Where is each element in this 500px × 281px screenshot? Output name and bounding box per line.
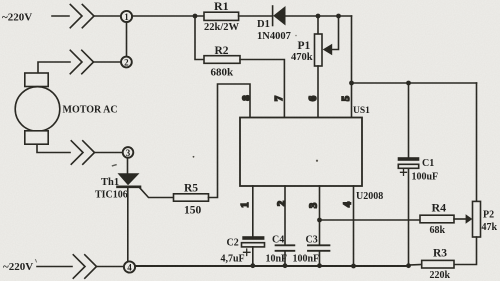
capacitor C2 4.7uF <box>221 236 265 264</box>
wire motor top lead <box>38 62 70 73</box>
wire D1 to corner <box>286 15 352 17</box>
junction dot C1 rail <box>406 81 411 86</box>
wire R4 to P2 wiper arrow <box>454 214 472 224</box>
wire R1 to D1 <box>239 15 273 17</box>
junction dot P1 top <box>316 14 321 19</box>
wire node1 to node2 <box>126 22 128 57</box>
diode D1 1N4007 <box>257 6 291 42</box>
connector chevrons row2 <box>70 50 93 73</box>
potentiometer P1 470k <box>291 16 339 66</box>
node 4 <box>124 261 135 272</box>
node 3 <box>123 147 134 158</box>
capacitor C1 100uF <box>398 157 438 182</box>
capacitor C3 100nF <box>293 235 330 265</box>
wire node3 to thyristor <box>127 158 129 174</box>
wire P1 to pin6 <box>317 66 319 118</box>
wire C1 to bottom rail <box>408 168 410 265</box>
wire chevron to node1 <box>94 15 121 17</box>
connector chevrons row4 <box>73 255 96 278</box>
label ~220V top <box>2 12 32 24</box>
junction dot C1 bottom <box>406 263 411 268</box>
connector chevrons row1 <box>70 5 94 28</box>
speck left of R5 <box>193 156 195 158</box>
junction dot wiper top <box>336 14 341 19</box>
wire chevron to node2 <box>94 61 122 63</box>
speck near node3 <box>113 165 117 166</box>
junction dot C3 <box>317 263 322 268</box>
junction dot C2 <box>250 263 255 268</box>
wire C3 to bottom rail <box>319 252 321 266</box>
wire pin4 to bottom rail <box>353 186 355 266</box>
wire R5 to pin8 <box>209 84 251 198</box>
junction dot node A <box>193 14 198 19</box>
wire chevron to node4 <box>97 266 125 268</box>
wire thyristor gate <box>140 188 174 198</box>
label ~220V bottom <box>3 261 33 273</box>
motor M1 MOTOR AC <box>15 73 117 144</box>
resistor R3 220k <box>409 248 455 281</box>
speck inside IC <box>316 160 318 162</box>
potentiometer P2 47k <box>454 83 498 265</box>
wire top-left feed <box>52 15 69 17</box>
speck above P1 label <box>295 35 297 37</box>
wire bottom rail <box>135 265 409 267</box>
wire pin3 to C3 <box>319 186 321 244</box>
wire top rail y83 <box>352 82 477 84</box>
speck near row4 label <box>36 260 37 263</box>
resistor R4 68k <box>420 201 454 237</box>
node 1 <box>121 11 132 22</box>
wire chevron to node3 <box>95 152 124 154</box>
wire C1 top <box>408 83 410 157</box>
wire pin2 to C4 <box>284 186 286 244</box>
junction dot pin4 <box>351 264 356 269</box>
resistor R5 150 <box>174 183 209 217</box>
thyristor Th1 TIC106 <box>95 173 140 200</box>
wire pin1 to C2 <box>252 186 254 236</box>
wire C4 to bottom rail <box>284 252 286 266</box>
wire pin3 to R4 <box>320 219 421 221</box>
capacitor C4 10nF <box>266 235 295 265</box>
wire thyristor cathode down <box>127 188 129 261</box>
wire motor bottom lead <box>37 145 70 153</box>
resistor R1 <box>204 0 240 33</box>
junction dot pin5 rail <box>349 81 354 86</box>
wire C2 to bottom rail <box>252 247 254 266</box>
wire bottom-left feed <box>37 266 72 268</box>
wire pin5 vertical <box>351 16 353 118</box>
node 2 <box>121 57 132 68</box>
resistor R2 680k <box>195 16 240 79</box>
wire node1 to R1 <box>132 15 204 17</box>
connector chevrons row3 <box>71 141 94 164</box>
junction dot pin3 R4 <box>317 218 322 223</box>
wire R2 to pin7 <box>240 60 284 118</box>
junction dot C4 <box>283 263 288 268</box>
op-amp U1 IC U2008 body <box>240 106 383 202</box>
